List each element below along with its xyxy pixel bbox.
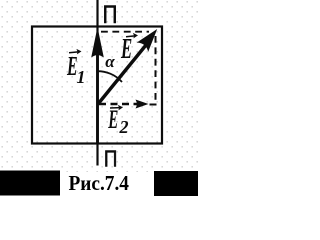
svg-text:П: П <box>103 0 118 28</box>
svg-text:E: E <box>120 34 132 66</box>
svg-text:1: 1 <box>77 67 86 87</box>
svg-text:α: α <box>105 52 115 71</box>
svg-text:E: E <box>107 105 118 134</box>
svg-text:2: 2 <box>119 117 129 137</box>
svg-text:П: П <box>104 146 118 173</box>
svg-text:Рис.7.4: Рис.7.4 <box>69 173 129 196</box>
